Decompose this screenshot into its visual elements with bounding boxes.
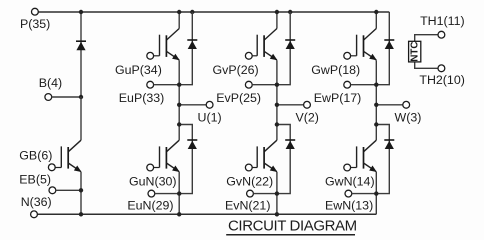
wire: N bus (bottom rail) (37, 213, 376, 215)
svg-text:GvP(26): GvP(26) (213, 63, 259, 77)
svg-text:B(4): B(4) (39, 76, 62, 90)
svg-text:GwN(14): GwN(14) (325, 174, 375, 188)
node: v-leg lower diode top junction (275, 122, 279, 126)
terminal W(3) (403, 101, 410, 108)
svg-text:EvP(25): EvP(25) (216, 91, 261, 105)
terminal EB(5) (49, 187, 56, 194)
svg-text:EwP(17): EwP(17) (314, 91, 362, 105)
wire: brake collector (80, 97, 82, 140)
wire: EuP(33) lead (154, 84, 180, 86)
svg-text:P(35): P(35) (20, 17, 50, 31)
wire: EwN(13) lead (352, 193, 377, 195)
svg-text:TH2(10): TH2(10) (419, 73, 464, 87)
terminal GwP(18) (344, 52, 351, 59)
wire: u-leg emitter vertical (178, 60, 180, 140)
wire: w-leg upper diode branch (bus corner) (376, 12, 389, 85)
diode D4 (u-phase lower FWD) (187, 139, 197, 141)
node: v output junction (275, 103, 279, 107)
terminal GuN(30) (147, 164, 154, 171)
wire: NTC top lead (415, 35, 439, 42)
svg-text:EuN(29): EuN(29) (127, 199, 173, 213)
terminal GvP(26) (245, 52, 252, 59)
node: u-leg upper emitter junction (177, 83, 181, 87)
terminal EvN(21) (247, 190, 254, 197)
transistor Q2 (v-phase upper IGBT) (264, 29, 277, 41)
node: v-leg upper emitter junction (275, 83, 279, 87)
node: v-leg upper diode at P bus (288, 10, 292, 14)
node: u-leg upper diode at P bus (190, 10, 194, 14)
svg-text:V(2): V(2) (296, 110, 319, 124)
svg-text:EwN(13): EwN(13) (325, 199, 373, 213)
terminal GB(6) (48, 164, 55, 171)
wire: w-leg upper collector (375, 12, 377, 29)
title underline (226, 234, 355, 236)
node: B junction (79, 95, 83, 99)
svg-text:GwP(18): GwP(18) (311, 63, 360, 77)
terminal EuN(29) (148, 190, 155, 197)
wire: EwP(17) lead (351, 84, 377, 86)
svg-text:GuP(34): GuP(34) (115, 63, 162, 77)
terminal EwN(13) (345, 190, 352, 197)
svg-text:NTC: NTC (409, 42, 420, 62)
svg-text:CIRCUIT DIAGRAM: CIRCUIT DIAGRAM (228, 218, 357, 235)
diode D1 (u-phase upper FWD) (187, 39, 197, 41)
wire: EuN(29) lead (155, 193, 179, 195)
svg-text:EuP(33): EuP(33) (119, 91, 164, 105)
wire: v-leg upper collector (276, 12, 278, 29)
wire: EvP(25) lead (252, 84, 277, 86)
terminal EvP(25) (245, 81, 252, 88)
wire: v-leg upper diode branch (277, 12, 290, 85)
terminal B(4) (45, 94, 52, 101)
node: v-leg lower emitter junction (275, 191, 279, 195)
terminal GuP(34) (147, 52, 154, 59)
wire: EvN(21) lead (253, 193, 277, 195)
diode D2 (v-phase upper FWD) (285, 39, 295, 41)
terminal U(1) (206, 101, 213, 108)
thermistor NTC body (409, 41, 421, 62)
diode D3 (w-phase upper FWD) (384, 39, 394, 41)
node: u-leg collector at P bus (177, 10, 181, 14)
svg-text:N(36): N(36) (21, 195, 52, 209)
transistor Q1 (u-phase upper IGBT) (166, 29, 179, 41)
terminal V(2) (304, 101, 311, 108)
node: u-leg lower emitter junction (177, 191, 181, 195)
wire: P bus (top rail) (38, 11, 389, 13)
transistor Q6 (w-phase lower IGBT) (364, 140, 377, 152)
wire: u-leg upper diode branch (179, 12, 192, 85)
node: EB junction (79, 188, 83, 192)
svg-text:EvN(21): EvN(21) (225, 199, 270, 213)
node: w-leg collector at P bus (374, 10, 378, 14)
wire: B lead (52, 96, 82, 98)
wire: w-leg emitter vertical (375, 60, 377, 140)
diode D6 (w-phase lower FWD) (384, 139, 394, 141)
terminal GwN(14) (344, 164, 351, 171)
wire: v-leg lower diode branch (277, 125, 290, 194)
wire: u-leg lower emitter vertical (178, 172, 180, 214)
wire: w-leg lower emitter vertical (375, 172, 377, 214)
wire: u-leg upper collector (178, 12, 180, 29)
node: left leg to N bus (79, 212, 83, 216)
wire: v output lead (277, 104, 304, 106)
node: u output junction (177, 103, 181, 107)
wire: w output lead (376, 104, 403, 106)
node: u-leg at N bus (177, 212, 181, 216)
node: w-leg lower diode top junction (374, 122, 378, 126)
terminal GvN(22) (245, 164, 252, 171)
wire: u output lead (179, 104, 206, 106)
svg-text:EB(5): EB(5) (19, 173, 51, 187)
terminal TH1(11) (438, 31, 445, 38)
svg-text:GB(6): GB(6) (19, 149, 52, 163)
wire: v-leg emitter vertical (276, 60, 278, 140)
terminal P(35) (32, 8, 39, 15)
wire: u-leg lower diode branch (179, 125, 192, 194)
transistor Q5 (v-phase lower IGBT) (264, 140, 277, 152)
terminal TH2(10) (438, 65, 445, 72)
node: w-leg upper emitter junction (374, 83, 378, 87)
transistor Q7 brake IGBT (68, 140, 81, 152)
node: u-leg lower diode top junction (177, 122, 181, 126)
terminal N(36) (31, 211, 38, 218)
terminal EwP(17) (344, 81, 351, 88)
wire: w-leg lower diode branch (376, 125, 389, 194)
wire: left branch vertical (P to B) (80, 12, 82, 97)
wire: v-leg lower emitter vertical (276, 172, 278, 214)
svg-text:GuN(30): GuN(30) (129, 174, 177, 188)
transistor Q4 (u-phase lower IGBT) (166, 140, 179, 152)
transistor Q3 (w-phase upper IGBT) (364, 29, 377, 41)
wire: EB lead (56, 189, 81, 191)
node: v-leg collector at P bus (275, 10, 279, 14)
svg-text:U(1): U(1) (198, 110, 222, 124)
node: w output junction (374, 103, 378, 107)
svg-text:GvN(22): GvN(22) (226, 174, 273, 188)
diode D5 (v-phase lower FWD) (285, 139, 295, 141)
svg-text:TH1(11): TH1(11) (420, 14, 465, 28)
node: bus junction left (79, 10, 83, 14)
wire: NTC bottom lead (415, 62, 439, 68)
terminal EuP(33) (147, 81, 154, 88)
node: v-leg at N bus (275, 212, 279, 216)
diode D7 (B to P) (76, 40, 86, 42)
wire: brake emitter (80, 172, 82, 214)
svg-text:W(3): W(3) (395, 110, 422, 124)
node: w-leg lower emitter junction (374, 191, 378, 195)
